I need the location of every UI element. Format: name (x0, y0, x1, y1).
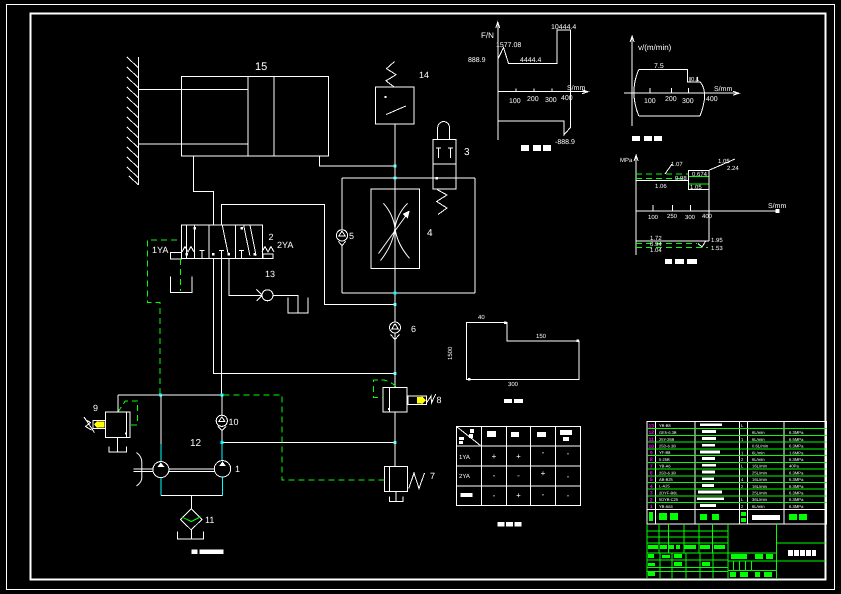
svg-text:36L/min: 36L/min (752, 497, 768, 502)
BOM rows text (649, 423, 655, 510)
svg-text:6.3MPa: 6.3MPa (789, 491, 804, 496)
throttle valve 4 (371, 189, 420, 268)
node junction box bottom (394, 292, 397, 295)
tank for 9 (109, 438, 127, 453)
svg-text:-: - (493, 471, 496, 480)
svg-text:-: - (517, 471, 520, 480)
svg-text:4444.4: 4444.4 (520, 57, 542, 64)
title block green texts (648, 545, 773, 577)
svg-text:1YA: 1YA (152, 245, 168, 255)
tank for 7 (390, 492, 404, 502)
svg-text:400: 400 (702, 213, 713, 220)
svg-text:F/N: F/N (481, 31, 494, 40)
svg-text:S/mm: S/mm (768, 202, 786, 210)
svg-text:3: 3 (464, 147, 470, 158)
svg-text:25D-6.3B: 25D-6.3B (659, 470, 676, 475)
wire right riser (221, 431, 223, 443)
caption chart1 (521, 145, 551, 151)
svg-text:0.6L/min: 0.6L/min (752, 444, 769, 449)
svg-text:6.3MPa: 6.3MPa (789, 504, 804, 509)
svg-text:v/(m/min): v/(m/min) (638, 43, 672, 52)
svg-text:5: 5 (650, 477, 653, 483)
svg-text:6.3MPa: 6.3MPa (789, 471, 804, 476)
wire valve2 T down (213, 258, 395, 373)
svg-text:13: 13 (265, 269, 275, 279)
svg-text:-888.9: -888.9 (555, 139, 575, 146)
svg-text:12: 12 (649, 430, 655, 436)
svg-text:6.5MPa: 6.5MPa (789, 437, 804, 442)
svg-text:6: 6 (411, 324, 416, 334)
tank for 11 (178, 530, 204, 539)
tank under valve2 (171, 277, 193, 293)
pump 1 (right) (214, 461, 230, 477)
svg-text:10: 10 (229, 417, 239, 427)
wire valve2 P riser down (220, 258, 222, 395)
svg-text:1.95: 1.95 (711, 237, 723, 244)
node junction manifold P (221, 393, 224, 396)
svg-text:0.98: 0.98 (675, 175, 687, 182)
svg-text:11: 11 (649, 437, 655, 443)
svg-text:100: 100 (648, 214, 659, 221)
svg-text:9: 9 (93, 403, 98, 413)
v-S speed chart (624, 36, 739, 126)
wire valve2 to check 13 (229, 258, 262, 295)
svg-text:2: 2 (269, 232, 274, 242)
svg-text:5-25B: 5-25B (659, 457, 670, 462)
wire cylinder port B (319, 156, 395, 166)
solenoid 2YA box (262, 247, 274, 259)
svg-text:6.3MPa: 6.3MPa (789, 477, 804, 482)
caption chart3 (665, 259, 697, 264)
svg-text:S/mm: S/mm (567, 84, 585, 92)
pilot green main path (224, 395, 385, 480)
svg-text:100: 100 (644, 98, 656, 105)
wire center vertical top (394, 124, 396, 322)
svg-text:100: 100 (509, 98, 521, 105)
svg-text:40Pa: 40Pa (789, 464, 799, 469)
svg-text:YB-B8: YB-B8 (659, 423, 671, 428)
node junction B (394, 164, 397, 167)
svg-text:+: + (516, 452, 521, 461)
F-S load chart (496, 22, 588, 140)
check valve 13 (257, 290, 299, 314)
svg-text:300: 300 (508, 381, 519, 388)
svg-text:1: 1 (235, 464, 240, 474)
BOM header row (649, 512, 807, 522)
pilot green valve 9 (118, 401, 138, 425)
svg-text:1.06: 1.06 (655, 183, 667, 190)
svg-text:0.1: 0.1 (691, 76, 700, 83)
svg-text:YF-B8: YF-B8 (659, 450, 671, 455)
node junction loop (394, 303, 397, 306)
svg-text:13: 13 (649, 423, 655, 429)
relief valve 14 (376, 62, 415, 125)
wire center vertical mid (394, 333, 396, 387)
svg-text:+: + (492, 452, 497, 461)
svg-text:11: 11 (205, 515, 214, 525)
svg-text:1.05: 1.05 (690, 184, 702, 191)
pilot line 1YA green (148, 240, 178, 395)
caption pump unit (192, 550, 224, 555)
svg-text:YB-A6: YB-A6 (659, 464, 671, 469)
title block (647, 524, 825, 579)
svg-text:1.72: 1.72 (650, 235, 662, 242)
svg-text:10444.4: 10444.4 (551, 24, 576, 31)
svg-text:5DYB-C25: 5DYB-C25 (659, 497, 679, 502)
filter 11 (180, 509, 202, 530)
svg-text:6.3MPa: 6.3MPa (789, 457, 804, 462)
caption workbench (504, 399, 523, 403)
svg-text:14: 14 (419, 70, 429, 80)
node junction manifold green (159, 393, 162, 396)
node junction pressure (394, 441, 397, 444)
caption table (498, 522, 522, 527)
svg-text:6.3MPa: 6.3MPa (789, 484, 804, 489)
svg-text:9: 9 (650, 450, 653, 456)
svg-text:1.05: 1.05 (718, 158, 730, 165)
svg-text:150: 150 (536, 333, 547, 340)
svg-text:YB-A64: YB-A64 (659, 504, 674, 509)
svg-text:1.04: 1.04 (650, 247, 662, 254)
wire pressure line pump to center (222, 441, 395, 443)
svg-text:16L/min: 16L/min (752, 484, 768, 489)
pump 2 (left) (153, 462, 169, 478)
BOM parts list (647, 422, 826, 524)
solenoid action table (457, 427, 581, 506)
svg-text:8: 8 (437, 395, 442, 405)
gauge 5 (336, 230, 347, 246)
svg-text:S/mm: S/mm (714, 85, 732, 93)
svg-text:400: 400 (561, 95, 573, 102)
svg-text:+: + (541, 469, 546, 478)
svg-text:6.3MPa: 6.3MPa (789, 497, 804, 502)
svg-text:400: 400 (706, 96, 718, 103)
svg-text:1YA: 1YA (459, 454, 470, 461)
svg-text:0.674: 0.674 (692, 171, 708, 178)
wire suction manifold (118, 394, 222, 396)
relief valve 7 (384, 466, 424, 491)
wire center vertical low (394, 412, 396, 466)
svg-text:25L/min: 25L/min (752, 471, 768, 476)
wire pump suction lines (160, 478, 162, 496)
svg-text:MPa: MPa (620, 157, 633, 164)
svg-text:1577.08: 1577.08 (496, 42, 521, 49)
wire left pump riser (160, 395, 162, 444)
solenoid 1YA box (171, 247, 195, 260)
check valve 6 (390, 322, 401, 340)
svg-text:4: 4 (650, 484, 653, 490)
svg-text:1.6MPa: 1.6MPa (789, 450, 804, 455)
relief valve 9 (84, 412, 130, 437)
svg-text:1.53: 1.53 (711, 245, 723, 252)
svg-text:6L/min: 6L/min (752, 450, 765, 455)
svg-text:-: - (542, 490, 545, 499)
svg-text:+: + (516, 491, 521, 500)
wall mount hatching (127, 57, 139, 185)
pilot drain 1YA green (180, 259, 182, 291)
svg-text:4: 4 (427, 228, 433, 239)
svg-text:2.24: 2.24 (727, 165, 739, 172)
directional valve 2 (182, 225, 263, 258)
svg-text:6.3MPa: 6.3MPa (789, 444, 804, 449)
drive symbol (137, 453, 142, 487)
wire valve9 riser (117, 395, 119, 412)
workbench outline (467, 323, 579, 380)
bypass box around throttle 4 (342, 178, 475, 293)
svg-text:300: 300 (545, 97, 557, 104)
svg-text:5: 5 (349, 231, 354, 241)
drawing title (788, 550, 816, 556)
svg-text:25L/min: 25L/min (752, 491, 768, 496)
svg-text:0.94: 0.94 (650, 241, 662, 248)
svg-text:200: 200 (527, 96, 539, 103)
caption chart2 (632, 136, 662, 141)
svg-text:1500: 1500 (447, 346, 454, 360)
svg-text:200: 200 (665, 96, 677, 103)
node junction T (394, 372, 397, 375)
svg-text:2YA: 2YA (459, 473, 470, 480)
pilot green valve 8 (374, 380, 396, 397)
svg-text:8: 8 (650, 457, 653, 463)
svg-text:-: - (567, 472, 570, 481)
svg-text:2: 2 (650, 497, 653, 503)
svg-text:888.9: 888.9 (468, 57, 486, 64)
pump shaft (134, 469, 215, 471)
check valve 10 (221, 395, 223, 415)
svg-text:-: - (542, 448, 545, 457)
svg-text:25Y-25B: 25Y-25B (659, 437, 675, 442)
svg-text:-: - (567, 449, 570, 458)
svg-text:12: 12 (190, 438, 202, 449)
node junction center top (394, 176, 397, 179)
wire valve2 A riser (212, 192, 214, 225)
svg-text:7: 7 (430, 471, 435, 481)
svg-text:-: - (493, 491, 496, 500)
svg-text:GE5-6.3B: GE5-6.3B (659, 430, 677, 435)
pilot valve 3 (433, 122, 456, 215)
svg-text:6: 6 (650, 471, 653, 477)
wire cylinder port A (194, 156, 214, 225)
svg-text:10: 10 (649, 444, 655, 450)
svg-text:6L/min: 6L/min (752, 430, 765, 435)
svg-text:-: - (567, 491, 570, 500)
svg-text:3: 3 (650, 491, 653, 497)
svg-text:2DYF-B8L: 2DYF-B8L (659, 490, 678, 495)
svg-text:2YA: 2YA (277, 240, 293, 250)
svg-text:25D-6.3B: 25D-6.3B (659, 444, 676, 449)
unloading valve 8 (383, 387, 436, 412)
cylinder 15 (139, 77, 329, 157)
svg-text:40: 40 (478, 314, 485, 321)
tank for 13 (288, 298, 308, 314)
svg-text:6.3MPa: 6.3MPa (789, 430, 804, 435)
wire valve2 B loop to center (221, 205, 395, 305)
svg-text:16L/min: 16L/min (752, 464, 768, 469)
pressure chart (634, 155, 779, 255)
svg-text:250: 250 (667, 213, 678, 220)
svg-text:7.5: 7.5 (654, 63, 664, 70)
svg-text:16L/min: 16L/min (752, 477, 768, 482)
svg-text:1: 1 (650, 504, 653, 510)
svg-text:L-A25: L-A25 (659, 484, 670, 489)
svg-text:6L/min: 6L/min (752, 504, 765, 509)
svg-text:15: 15 (255, 61, 267, 73)
svg-text:6L/min: 6L/min (752, 437, 765, 442)
svg-text:AB-B25: AB-B25 (659, 477, 674, 482)
svg-text:300: 300 (685, 214, 696, 221)
svg-text:6L/min: 6L/min (752, 457, 765, 462)
svg-text:7: 7 (650, 464, 653, 470)
svg-text:1.07: 1.07 (671, 161, 683, 168)
svg-text:300: 300 (682, 98, 694, 105)
